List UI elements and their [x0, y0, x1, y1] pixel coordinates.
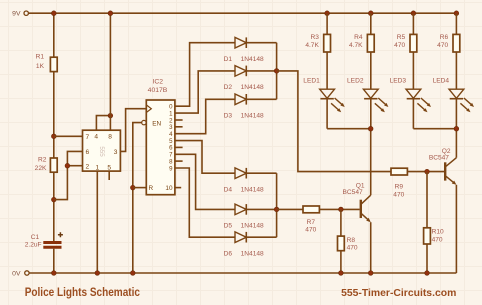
- wire Q5 to D4: [175, 141, 235, 174]
- wire pin1 to 0V: [96, 171, 98, 273]
- svg-text:1N4148: 1N4148: [241, 251, 264, 258]
- transistor Q1 BC547: [343, 183, 371, 223]
- svg-text:LED1: LED1: [303, 78, 320, 85]
- wire R6 to LED4: [455, 52, 457, 89]
- resistor R1: [36, 54, 58, 72]
- svg-text:2: 2: [85, 163, 89, 170]
- svg-text:R10: R10: [432, 229, 444, 236]
- junction rail/R6: [454, 11, 459, 16]
- wire R5 to LED3: [412, 52, 414, 89]
- diode D4 1N4148: [224, 168, 264, 194]
- svg-text:R4: R4: [354, 34, 363, 41]
- wire R1 to R2: [53, 72, 55, 158]
- resistor R9: [391, 168, 407, 198]
- resistor R10: [424, 228, 444, 244]
- svg-text:470: 470: [305, 227, 316, 234]
- wire lower bus to R7: [277, 208, 303, 210]
- svg-text:1: 1: [95, 164, 99, 171]
- junction upper bus: [274, 69, 279, 74]
- resistor R2: [35, 157, 58, 173]
- LED LED4: [433, 78, 474, 113]
- junction Q1 emitter/0V: [368, 271, 373, 276]
- wire R9 to Q2 base: [407, 171, 444, 173]
- wire R pin: [133, 187, 147, 189]
- svg-text:4017B: 4017B: [148, 87, 168, 94]
- wire C1 to rail: [53, 249, 55, 273]
- wire R10 to 0V: [426, 244, 428, 273]
- svg-text:1N4148: 1N4148: [241, 84, 264, 91]
- wire LED1 to LED2 join: [327, 128, 371, 130]
- resistor R3: [305, 34, 330, 52]
- svg-text:555-Timer-Circuits.com: 555-Timer-Circuits.com: [341, 287, 456, 299]
- wire Q9 to D6: [175, 168, 235, 237]
- svg-text:470: 470: [347, 245, 358, 252]
- capacitor C1: [25, 232, 63, 249]
- svg-text:R7: R7: [307, 219, 316, 226]
- wire pin stub Q6: [175, 146, 183, 148]
- resistor R7: [303, 206, 319, 234]
- wire lower diode bus: [276, 173, 278, 237]
- wire R7 to Q1 base: [319, 208, 359, 210]
- wire Q2 emitter to 0V: [455, 185, 457, 273]
- wire Q7 to D5: [175, 154, 235, 209]
- wire rail to R5: [412, 13, 414, 34]
- svg-text:1K: 1K: [36, 63, 45, 70]
- wire D5 cathode: [246, 208, 276, 210]
- transistor Q2 BC547: [429, 148, 457, 185]
- junction pin1/0V: [95, 271, 100, 276]
- junction R10/0V: [425, 271, 430, 276]
- wire Q0 to D1: [175, 43, 235, 106]
- svg-text:IC2: IC2: [153, 78, 164, 85]
- junction pin7 tap: [52, 134, 57, 139]
- op-amp U1 555 timer: [83, 130, 121, 171]
- svg-text:470: 470: [437, 42, 448, 49]
- diode D6 1N4148: [224, 232, 264, 258]
- resistor R6: [437, 34, 460, 52]
- wire 555 output to 4017 clock: [120, 109, 146, 152]
- junction rail/R1 column: [52, 11, 57, 16]
- svg-text:10: 10: [165, 185, 173, 192]
- svg-text:BC547: BC547: [429, 155, 449, 162]
- title 555-Timer-Circuits.com: [341, 287, 456, 299]
- wire LED2 cathode: [370, 99, 372, 129]
- wire pin stub Q8: [175, 160, 183, 162]
- wire R3 to LED1: [326, 52, 328, 89]
- svg-text:LED2: LED2: [347, 78, 364, 85]
- wire pin8 to 9V: [109, 13, 111, 130]
- wire LED3 to LED4 join: [413, 128, 456, 130]
- wire Q1 collector: [370, 129, 372, 196]
- svg-text:D5: D5: [224, 223, 233, 230]
- svg-text:4.7K: 4.7K: [305, 42, 319, 49]
- svg-text:555: 555: [98, 146, 105, 157]
- node 9V terminal: [12, 11, 28, 18]
- wire R2 to C1: [53, 172, 55, 241]
- svg-text:2.2uF: 2.2uF: [25, 241, 42, 248]
- wire pin5 stub: [108, 171, 110, 180]
- junction R7/R8: [339, 207, 344, 212]
- junction pin2/6: [65, 163, 70, 168]
- wire Q1 to D2: [175, 71, 235, 113]
- svg-text:6: 6: [85, 149, 89, 156]
- wire Q4 to D3: [175, 99, 235, 133]
- svg-text:C1: C1: [31, 234, 40, 241]
- wire rail to R6: [455, 13, 457, 34]
- node 0V terminal: [12, 271, 29, 278]
- svg-text:R5: R5: [397, 34, 406, 41]
- wire rail to R1: [53, 13, 55, 57]
- svg-text:D3: D3: [224, 113, 233, 120]
- junction rail/R4: [369, 11, 374, 16]
- diode D5 1N4148: [224, 204, 264, 230]
- svg-text:1N4148: 1N4148: [241, 223, 264, 230]
- svg-text:D6: D6: [224, 251, 233, 258]
- svg-text:5: 5: [107, 164, 111, 171]
- junction rail/R5: [411, 11, 416, 16]
- wire D4 cathode: [246, 172, 276, 174]
- junction LED1/LED2: [368, 126, 373, 131]
- svg-text:LED4: LED4: [433, 78, 450, 85]
- junction lower bus: [274, 207, 279, 212]
- wire rail to R3: [326, 13, 328, 34]
- svg-text:470: 470: [393, 192, 404, 199]
- wire EN to ground: [133, 123, 142, 273]
- svg-text:4: 4: [94, 134, 98, 141]
- svg-text:4.7K: 4.7K: [349, 42, 363, 49]
- junction pin8/rail: [108, 11, 113, 16]
- junction pin2/6 tap: [52, 197, 57, 202]
- wire pin stub 10: [175, 187, 181, 189]
- svg-text:BC547: BC547: [343, 189, 363, 196]
- wire R8 top: [340, 209, 342, 236]
- wire rail to R4: [370, 13, 372, 34]
- wire R10 top: [426, 172, 428, 228]
- LED LED1: [303, 78, 344, 113]
- svg-text:EN: EN: [152, 120, 161, 127]
- junction R tap: [131, 185, 136, 190]
- svg-text:0V: 0V: [12, 271, 21, 278]
- svg-text:D4: D4: [224, 187, 233, 194]
- wire pin2 feed: [67, 165, 82, 167]
- junction R8/0V: [339, 271, 344, 276]
- svg-text:8: 8: [108, 134, 112, 141]
- wire 0V bottom rail: [29, 272, 456, 274]
- junction C1/0V: [52, 271, 57, 276]
- svg-text:LED3: LED3: [390, 78, 407, 85]
- wire upper bus to R9: [277, 71, 391, 172]
- wire pin stub Q2: [175, 119, 183, 121]
- op-amp U2 4017B decade counter: [142, 78, 175, 194]
- wire D2 cathode: [246, 70, 276, 72]
- svg-text:1N4148: 1N4148: [241, 56, 264, 63]
- svg-text:1N4148: 1N4148: [241, 113, 264, 120]
- svg-text:R6: R6: [440, 34, 449, 41]
- svg-text:7: 7: [85, 134, 89, 141]
- junction pin4/8: [108, 113, 113, 118]
- wire Q1 emitter to 0V: [370, 222, 372, 273]
- resistor R5: [394, 34, 417, 52]
- wire D1 cathode: [246, 42, 276, 44]
- wire pin stub Q3: [175, 126, 183, 128]
- svg-text:R9: R9: [395, 183, 404, 190]
- svg-text:470: 470: [432, 236, 443, 243]
- svg-text:R8: R8: [347, 237, 356, 244]
- svg-text:9V: 9V: [12, 11, 21, 18]
- wire 9V top rail: [29, 12, 457, 14]
- wire R8 to 0V: [340, 251, 342, 273]
- svg-text:D2: D2: [224, 84, 233, 91]
- svg-text:D1: D1: [224, 56, 233, 63]
- svg-text:22K: 22K: [35, 165, 47, 172]
- svg-text:R1: R1: [36, 54, 45, 61]
- svg-text:R3: R3: [310, 34, 319, 41]
- wire pin4 to pin8 column: [96, 116, 110, 131]
- wire pin7 to column: [54, 135, 83, 137]
- diode D3 1N4148: [224, 94, 264, 120]
- wire R4 to LED2: [370, 52, 372, 89]
- wire upper diode bus: [276, 43, 278, 100]
- wire LED4 cathode: [455, 99, 457, 129]
- wire LED1 cathode: [326, 99, 328, 129]
- wire Q2 collector: [455, 129, 457, 158]
- LED LED2: [347, 78, 388, 113]
- resistor R8: [338, 236, 358, 252]
- svg-text:R: R: [149, 185, 154, 192]
- svg-text:1N4148: 1N4148: [241, 187, 264, 194]
- resistor R4: [349, 34, 374, 52]
- junction EN net/0V: [131, 271, 136, 276]
- junction R9/R10: [425, 169, 430, 174]
- svg-text:3: 3: [114, 149, 118, 156]
- junction rail/R3: [325, 11, 330, 16]
- diode D1 1N4148: [224, 37, 264, 63]
- svg-text:470: 470: [394, 42, 405, 49]
- svg-text:Police Lights Schematic: Police Lights Schematic: [25, 285, 140, 299]
- LED LED3: [390, 78, 431, 113]
- junction LED3/LED4: [454, 126, 459, 131]
- svg-text:R2: R2: [38, 157, 47, 164]
- diode D2 1N4148: [224, 66, 264, 92]
- title Police Lights Schematic: [25, 285, 140, 299]
- wire LED3 cathode: [412, 99, 414, 129]
- wire D3 cathode: [246, 98, 276, 100]
- wire D6 cathode: [246, 236, 276, 238]
- wire pin6 feed: [54, 151, 83, 199]
